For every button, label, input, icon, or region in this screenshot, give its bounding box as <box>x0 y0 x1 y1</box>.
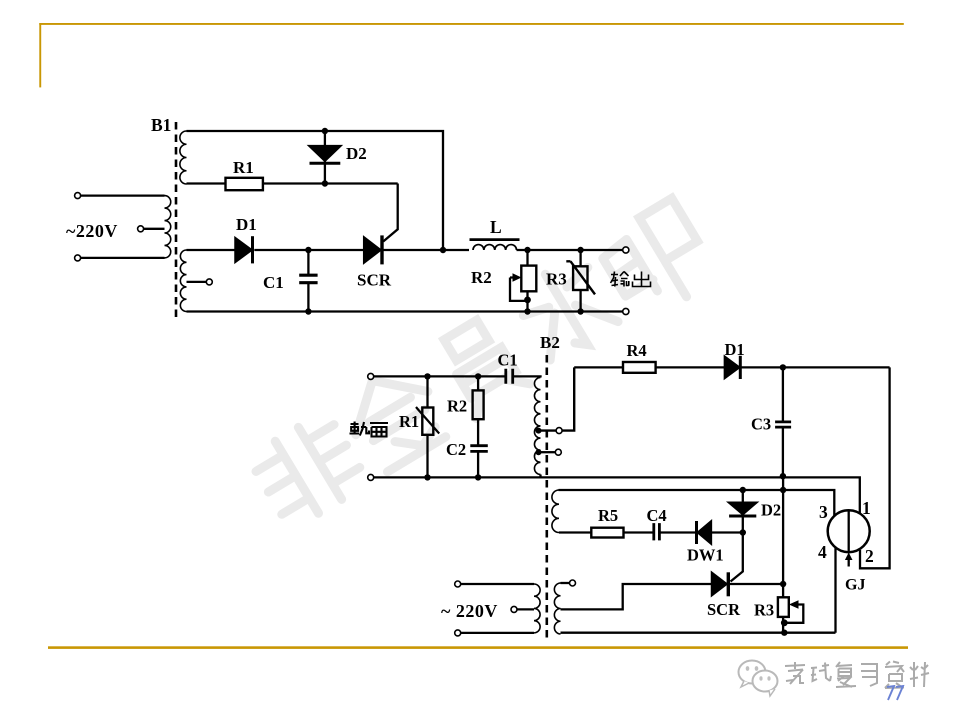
svg-text:R3: R3 <box>754 601 774 620</box>
svg-text:C1: C1 <box>263 273 284 292</box>
svg-text:D1: D1 <box>725 340 745 359</box>
transformer T2 secondary winding <box>554 583 560 634</box>
node dot long vertical on rail y=490 <box>780 487 786 493</box>
capacitor C1 plates <box>299 275 317 283</box>
long vertical C3-to-R3 (x=783.1) <box>782 477 784 632</box>
transformer B2 core (dashed line) <box>545 355 548 639</box>
wire L to output top <box>517 249 623 251</box>
node dot SCR anode rail x=443 <box>440 247 446 253</box>
wire bottom rail circuit1 (y=311.5) <box>187 310 623 312</box>
resistor R5 body <box>591 528 623 538</box>
wire main rail circuit1 (y=250) <box>187 249 470 251</box>
wire B2 tap2 to terminal <box>541 451 556 453</box>
potentiometer R2 wiper arm <box>510 278 528 301</box>
terminal track input top <box>368 373 374 379</box>
terminal output bottom <box>623 308 629 314</box>
resistor R2 (circuit2) leads <box>477 376 479 477</box>
svg-text:SCR: SCR <box>707 600 741 619</box>
transformer B2 secondary winding (R5 branch) <box>552 490 559 533</box>
diode D2 vertical lead <box>324 131 326 184</box>
wire R5 row (y=532.5) <box>559 531 743 533</box>
wire AC input bottom (circuit1) <box>78 257 165 259</box>
label 输出 (output) <box>611 272 651 287</box>
svg-text:L: L <box>490 217 502 237</box>
svg-text:R1: R1 <box>399 412 419 431</box>
node dot R1 row / D2 cathode <box>322 180 328 186</box>
svg-text:C1: C1 <box>498 351 518 370</box>
wire B2 primary bottom to rail <box>539 475 541 478</box>
terminal AC input bottom (circuit1) <box>75 255 81 261</box>
terminal ~220V bottom <box>455 630 461 636</box>
terminal ~220V top <box>455 581 461 587</box>
footer text 考试复习资料 (gray) <box>785 662 929 689</box>
varistor R1 body <box>422 408 433 435</box>
watermark char 会 <box>336 359 452 476</box>
inductor L overbar <box>470 238 520 241</box>
node dot C3 top <box>780 364 786 370</box>
relay GJ core line <box>848 511 850 552</box>
node dot R3 bottom <box>577 308 583 314</box>
wire rail to relay pin3 (y=490) <box>559 490 835 517</box>
varistor R1 (circuit2) leads <box>426 376 428 477</box>
diode D1 (circuit2) <box>725 357 739 378</box>
wire SCR anode feed from B2 winding tap <box>561 584 712 609</box>
varistor R3 body <box>573 266 587 290</box>
zener diode DW1 (cathode left) <box>698 522 711 544</box>
node dot R3 bottom on rail <box>781 630 787 636</box>
node dot B2 tap1 <box>536 428 542 434</box>
wire top rail circuit1 (y=131) with drop to SCR anode rail <box>187 131 444 250</box>
transformer B2 primary winding <box>534 378 540 475</box>
svg-text:R1: R1 <box>233 158 254 177</box>
node dot B2 tap2 <box>536 449 542 455</box>
resistor R2 body (circuit2) <box>473 390 484 419</box>
watermark char 水 <box>511 254 622 365</box>
potentiometer R2 leads <box>526 250 528 312</box>
wire R1 row (y=183.5) <box>187 182 398 184</box>
potentiometer R2 body <box>521 266 536 292</box>
wire R4/D1 row (y=367.4) <box>574 366 889 368</box>
varistor R3 leads <box>579 250 581 312</box>
capacitor C4 plates <box>654 523 660 540</box>
potentiometer R3 wiper arm <box>785 605 803 623</box>
wire AC input top (circuit1) <box>78 194 165 196</box>
svg-text:4: 4 <box>818 542 827 562</box>
potentiometer R3 (circuit3) body <box>778 597 789 617</box>
node dot C1 top <box>305 247 311 253</box>
terminal track input bottom <box>368 474 374 480</box>
relay pin4 lead <box>834 547 836 633</box>
capacitor C3 leads <box>782 367 784 477</box>
svg-text:B1: B1 <box>151 115 171 135</box>
svg-text:D1: D1 <box>236 215 257 234</box>
slide gold frame: bottom horizontal rule <box>48 646 908 649</box>
watermark char 非 <box>248 411 369 530</box>
node dot C2 bottom <box>475 474 481 480</box>
capacitor C3 plates <box>775 422 791 427</box>
wire top rail circuit2 (y=376.4) <box>371 376 541 377</box>
inductor L winding <box>473 245 517 250</box>
wire T2 secondary top to open terminal <box>561 582 570 584</box>
watermark char 印 <box>595 198 720 323</box>
resistor R4 body <box>623 362 656 373</box>
label 轨面 (rail surface) <box>350 422 389 437</box>
diode D1 (anode left) <box>235 238 251 262</box>
wire ~220V top <box>458 583 534 585</box>
transformer B1 core (dashed line) <box>175 122 178 318</box>
node dot top rail / D2 anode <box>322 128 328 134</box>
wire SCR gate from R1 row <box>383 184 398 242</box>
svg-text:GJ: GJ <box>845 577 865 594</box>
terminal B1 lower tap <box>206 279 212 285</box>
node dot SCR cathode junction <box>780 581 786 587</box>
terminal B2 tap2 <box>555 449 561 455</box>
thyristor SCR (circuit1) <box>364 238 380 263</box>
watermark 非会员水印 (diagonal light-gray) <box>246 198 719 533</box>
wire bottom rail circuit3 (y=632.7) <box>561 632 836 634</box>
svg-text:~ 220V: ~ 220V <box>441 601 498 621</box>
wire bottom/common rail circuit2 (y=477.4) to relay pin1 <box>371 477 860 513</box>
diode D2 (cathode down) <box>310 146 341 161</box>
svg-text:R2: R2 <box>471 268 492 287</box>
transformer B1 primary winding <box>165 196 171 258</box>
node dot R2 top (circuit2) <box>475 373 481 379</box>
svg-text:~220V: ~220V <box>66 221 118 241</box>
diode D2 (circuit3, cathode down) <box>729 503 756 515</box>
watermark char 员 <box>433 314 531 419</box>
resistor R1 body <box>226 178 263 190</box>
thyristor SCR (circuit3) <box>712 573 727 595</box>
svg-text:3: 3 <box>819 502 828 522</box>
terminal output top <box>623 247 629 253</box>
varistor R3 diagonal stroke <box>566 261 595 294</box>
capacitor C1 leads <box>307 250 309 312</box>
svg-text:DW1: DW1 <box>687 546 724 565</box>
svg-text:R4: R4 <box>627 341 647 360</box>
varistor R1 diagonal stroke <box>416 407 439 434</box>
footer page number 77 (blue) <box>887 686 903 700</box>
transformer T2 (~220V) primary winding <box>534 584 540 633</box>
svg-text:1: 1 <box>862 498 871 518</box>
node dot C3 bottom on common rail <box>780 473 786 479</box>
node dot R2 wiper junction <box>524 297 531 304</box>
node dot R3 top <box>577 247 583 253</box>
svg-text:R2: R2 <box>447 397 467 416</box>
transformer B1 secondary winding (lower) <box>180 250 186 311</box>
relay GJ arrow <box>848 556 850 567</box>
svg-text:D2: D2 <box>346 144 367 163</box>
svg-text:R3: R3 <box>546 270 567 289</box>
wire AC input center tap (circuit1) <box>144 228 165 230</box>
terminal AC input tap (circuit1) <box>138 226 144 232</box>
relay GJ coil circle <box>828 510 870 552</box>
node dot R1 bottom (circuit2) <box>424 474 430 480</box>
node dot DW1/D2 junction <box>740 529 746 535</box>
wire B2 tap1 to terminal and up to R4 row <box>541 367 575 430</box>
svg-text:2: 2 <box>865 546 874 566</box>
wire SCR cathode to long vertical <box>728 583 783 585</box>
node dot D2 top on rail y=490 <box>740 487 746 493</box>
node dot C1 bottom <box>305 308 311 314</box>
terminal B2 tap1 <box>556 428 562 434</box>
capacitor C2 plates <box>470 446 488 452</box>
diode D2 (circuit3) vertical lead <box>731 490 743 582</box>
svg-text:C3: C3 <box>751 415 771 434</box>
footer logo chat bubbles <box>739 661 778 697</box>
svg-text:R5: R5 <box>598 506 618 525</box>
svg-text:B2: B2 <box>540 333 560 352</box>
terminal AC input top (circuit1) <box>75 193 81 199</box>
node dot R2 bottom <box>524 308 530 314</box>
node dot R3 wiper junction <box>781 619 788 626</box>
terminal ~220V tap <box>511 606 517 612</box>
svg-text:C4: C4 <box>647 506 667 525</box>
slide gold frame: left vertical tick <box>39 23 41 87</box>
svg-text:SCR: SCR <box>357 271 392 290</box>
transformer B1 secondary winding (upper) <box>180 131 187 184</box>
node dot R2 top <box>524 247 530 253</box>
node dot R1 top (circuit2) <box>424 373 430 379</box>
svg-text:D2: D2 <box>761 501 781 520</box>
svg-text:C2: C2 <box>446 440 466 459</box>
capacitor C1 (circuit2) plates <box>506 369 513 384</box>
terminal T2 secondary top <box>570 580 576 586</box>
wire ~220V center tap <box>517 608 534 610</box>
wire secondary lower tap <box>187 281 207 283</box>
wire ~220V bottom <box>458 632 534 634</box>
wire right branch down to relay pin2 loop <box>860 367 890 568</box>
slide gold frame: top horizontal rule <box>39 23 904 25</box>
